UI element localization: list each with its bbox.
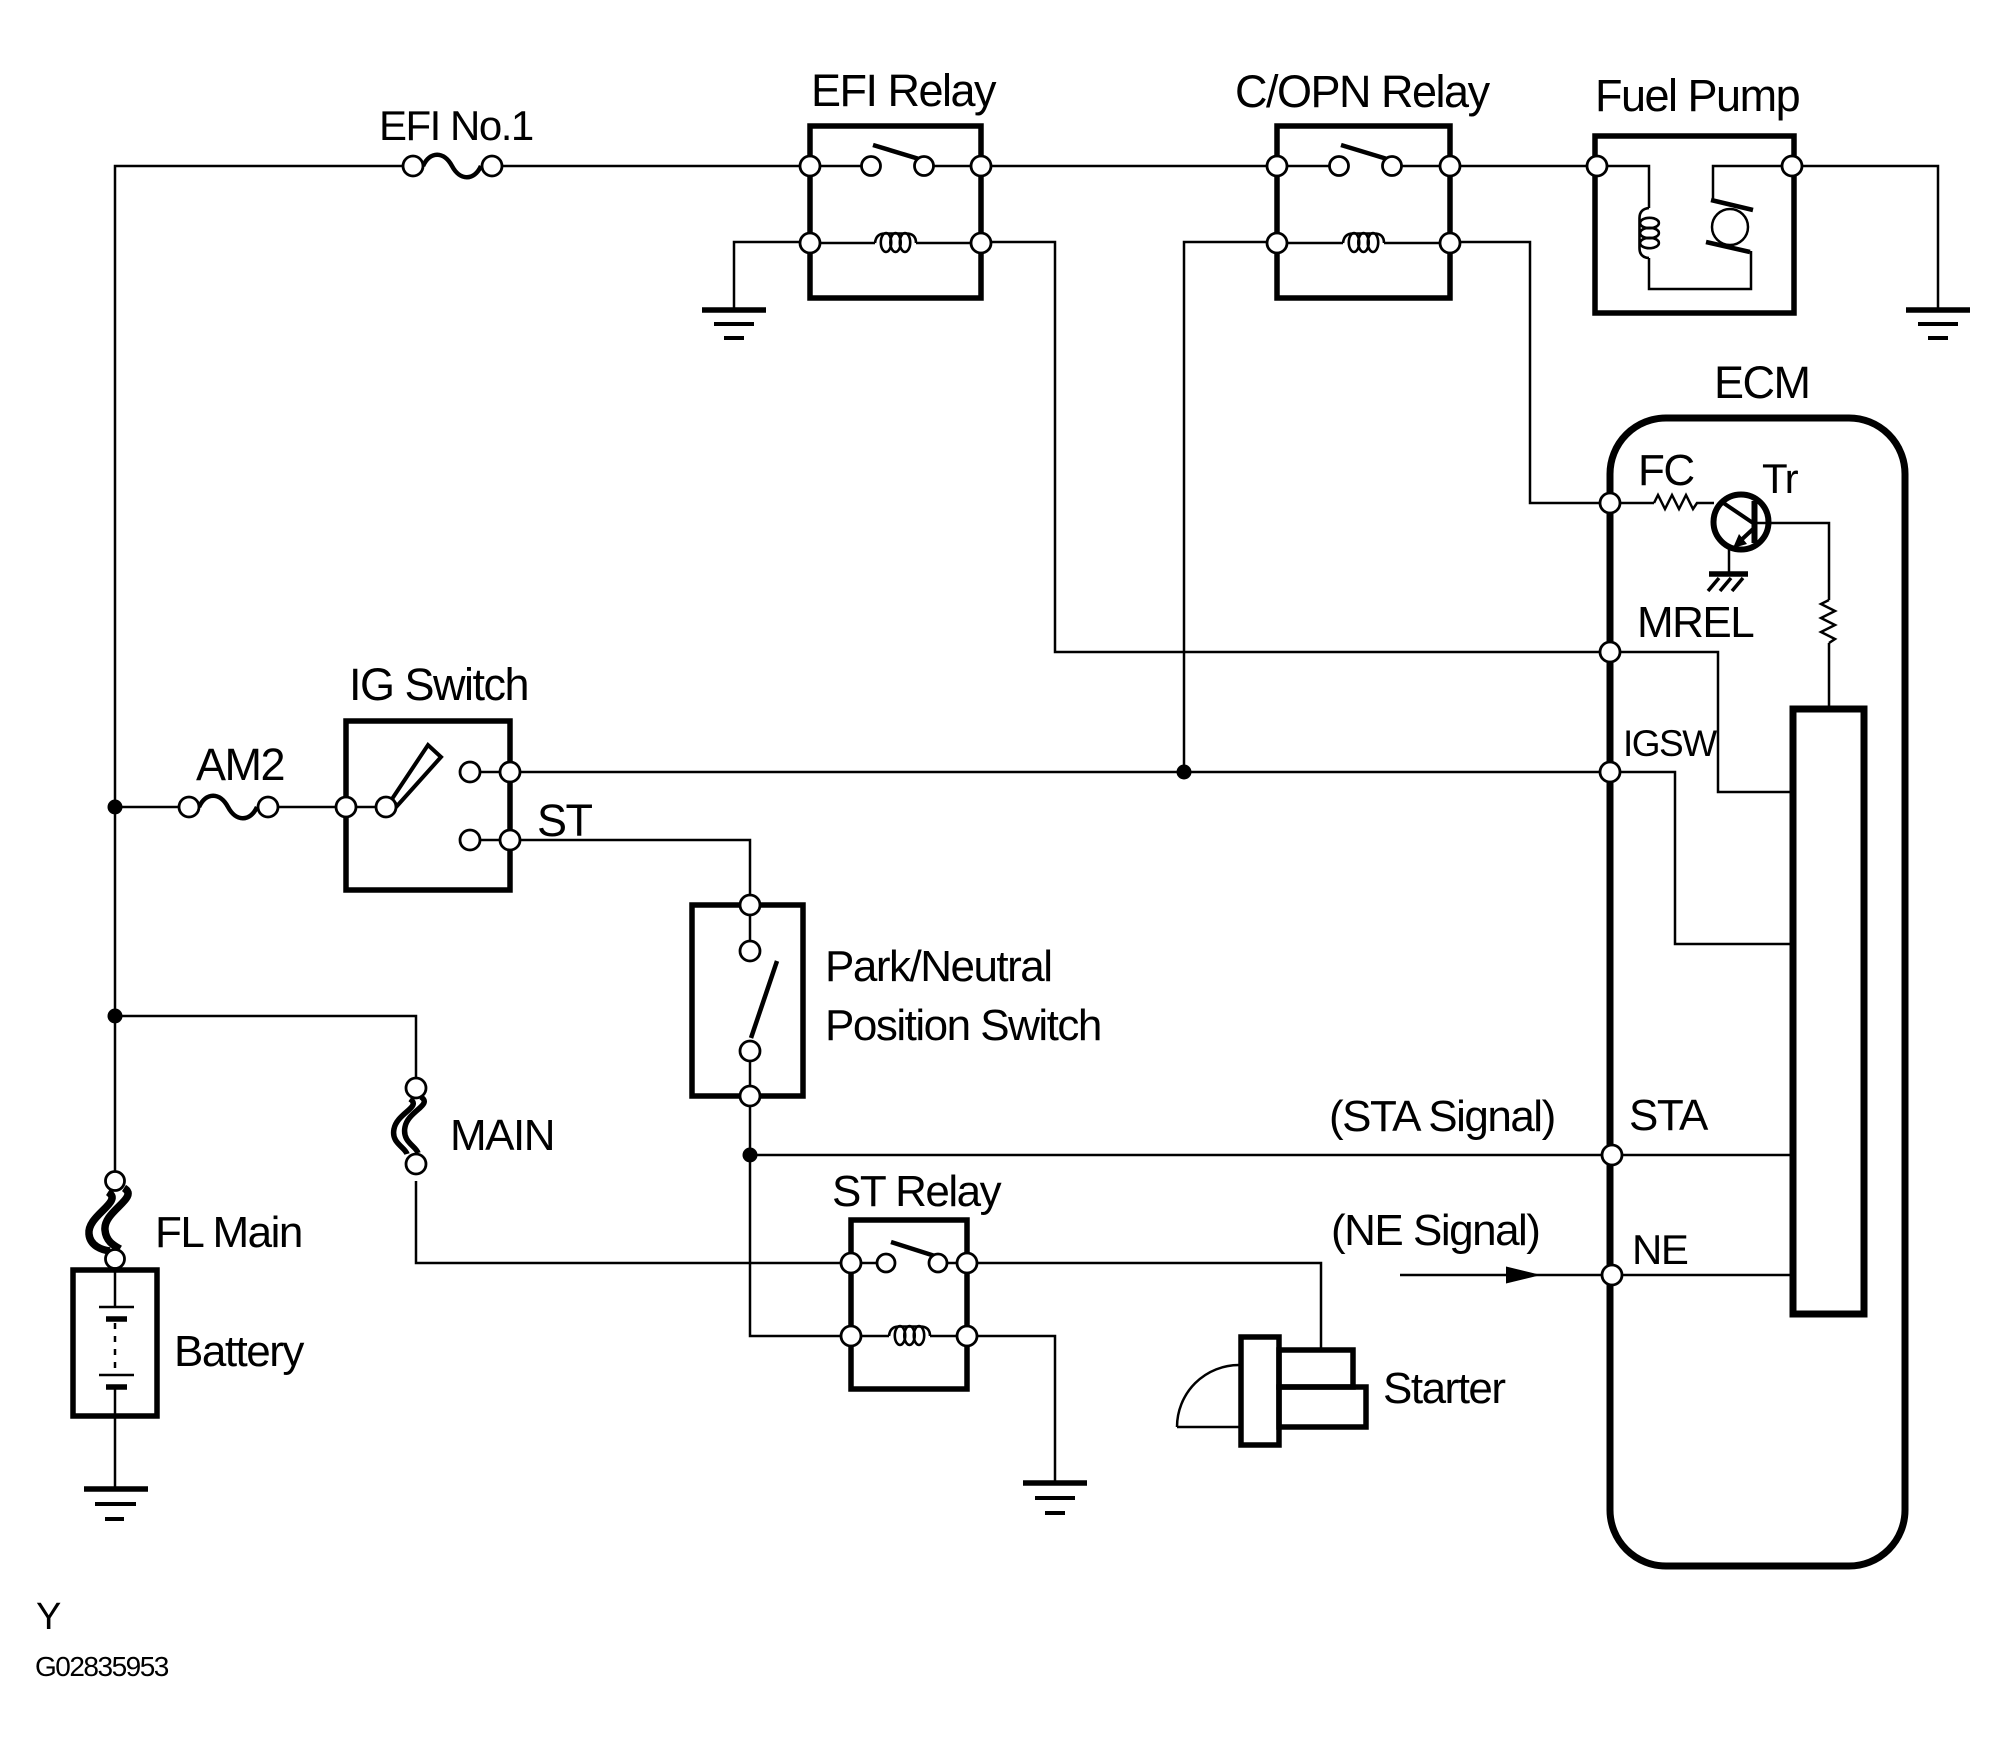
svg-text:(NE Signal): (NE Signal) <box>1331 1206 1539 1255</box>
ECM box <box>1610 418 1905 1566</box>
pin STA <box>1602 1145 1622 1165</box>
wire Fuel Pump to right ground <box>1792 166 1938 308</box>
wire IG Switch ST contact to Park/Neutral switch <box>510 840 750 895</box>
svg-text:FL Main: FL Main <box>155 1208 302 1257</box>
relay EFI Relay <box>800 126 991 298</box>
svg-text:STA: STA <box>1629 1091 1709 1140</box>
junction IGSW node <box>1177 765 1192 780</box>
wire EFI Relay coil to left ground <box>734 242 810 308</box>
wire Park/Neutral switch to STA junction <box>749 1106 752 1155</box>
svg-text:Park/Neutral: Park/Neutral <box>825 942 1052 991</box>
svg-text:C/OPN Relay: C/OPN Relay <box>1235 66 1491 117</box>
wire ST Relay coil to ground <box>967 1336 1055 1481</box>
node MREL <box>1610 652 1793 792</box>
node IGSW <box>1610 772 1793 944</box>
wire AM2 branch <box>115 806 179 809</box>
pin IGSW <box>1600 762 1620 782</box>
wire resistor to internal block <box>1828 643 1831 709</box>
wire C/OPN Relay coil to FC <box>1450 242 1610 503</box>
node STA inside <box>1612 1154 1793 1157</box>
svg-text:MAIN: MAIN <box>450 1111 554 1160</box>
switch Park/Neutral Position Switch <box>692 895 803 1106</box>
svg-text:(STA Signal): (STA Signal) <box>1329 1092 1555 1141</box>
ground below battery <box>84 1489 148 1519</box>
svg-text:EFI No.1: EFI No.1 <box>379 102 533 149</box>
relay C/OPN Relay <box>1267 126 1460 298</box>
wire STA signal <box>750 1154 1612 1157</box>
resistor FC <box>1610 495 1714 509</box>
wire EFI No.1 fuse to EFI Relay <box>502 165 810 168</box>
svg-text:Battery: Battery <box>174 1327 304 1376</box>
fuse AM2 <box>179 796 278 819</box>
wire NE signal arrow <box>1400 1274 1612 1277</box>
wire EFI Relay to C/OPN Relay <box>981 165 1277 168</box>
wire MAIN fuse to ST Relay <box>416 1181 851 1263</box>
resistor inside ECM <box>1821 600 1835 643</box>
wire IG Switch IG contact to ECM IGSW <box>510 771 1610 774</box>
ground below ST Relay <box>1023 1483 1087 1513</box>
starter <box>1177 1337 1366 1445</box>
svg-text:IG Switch: IG Switch <box>349 659 528 710</box>
svg-text:Fuel Pump: Fuel Pump <box>1595 70 1800 121</box>
svg-text:Position Switch: Position Switch <box>825 1001 1101 1050</box>
battery <box>73 1270 157 1416</box>
junction AM2 node <box>108 800 123 815</box>
pin MREL <box>1600 642 1620 662</box>
wire top bus from battery column to EFI No.1 fuse <box>115 166 403 1171</box>
transistor Tr <box>1714 495 1769 573</box>
svg-text:FC: FC <box>1638 446 1694 495</box>
fuse EFI No.1 <box>403 155 502 178</box>
svg-text:G02835953: G02835953 <box>35 1651 169 1682</box>
svg-text:Tr: Tr <box>1762 455 1799 502</box>
svg-text:ECM: ECM <box>1714 357 1810 408</box>
wire STA junction down to ST Relay switch <box>750 1155 851 1336</box>
svg-text:ST: ST <box>537 795 593 846</box>
fuse MAIN <box>394 1078 426 1174</box>
ECM internal block <box>1793 709 1864 1314</box>
wire C/OPN Relay coil to IGSW junction <box>1184 242 1277 772</box>
wire MAIN branch <box>115 1016 416 1077</box>
wire Tr collector to resistor <box>1757 523 1829 600</box>
ground below EFI Relay <box>702 310 766 338</box>
junction STA node <box>743 1148 758 1163</box>
fusible link FL Main <box>89 1172 128 1269</box>
svg-text:EFI Relay: EFI Relay <box>811 65 997 116</box>
pin FC <box>1600 493 1620 513</box>
relay ST Relay <box>841 1220 977 1389</box>
svg-text:AM2: AM2 <box>196 739 284 790</box>
svg-text:NE: NE <box>1632 1226 1688 1273</box>
wire AM2 fuse to IG Switch <box>278 806 346 809</box>
wire EFI Relay coil to MREL <box>981 242 1610 652</box>
junction MAIN node <box>108 1009 123 1024</box>
svg-text:ST Relay: ST Relay <box>832 1167 1002 1216</box>
switch IG Switch <box>336 721 520 890</box>
fuel pump <box>1587 136 1802 313</box>
ground right of fuel pump <box>1906 310 1970 338</box>
svg-text:Starter: Starter <box>1383 1364 1505 1413</box>
hatched ground of Tr emitter <box>1708 574 1748 591</box>
pin NE <box>1602 1265 1622 1285</box>
svg-text:MREL: MREL <box>1637 598 1754 647</box>
node NE inside <box>1612 1274 1793 1277</box>
svg-text:Y: Y <box>36 1596 61 1638</box>
wire ST Relay to starter <box>967 1263 1321 1352</box>
wire C/OPN Relay to Fuel Pump <box>1450 165 1597 168</box>
svg-text:IGSW: IGSW <box>1623 723 1717 764</box>
wire battery to lower ground <box>114 1416 117 1487</box>
